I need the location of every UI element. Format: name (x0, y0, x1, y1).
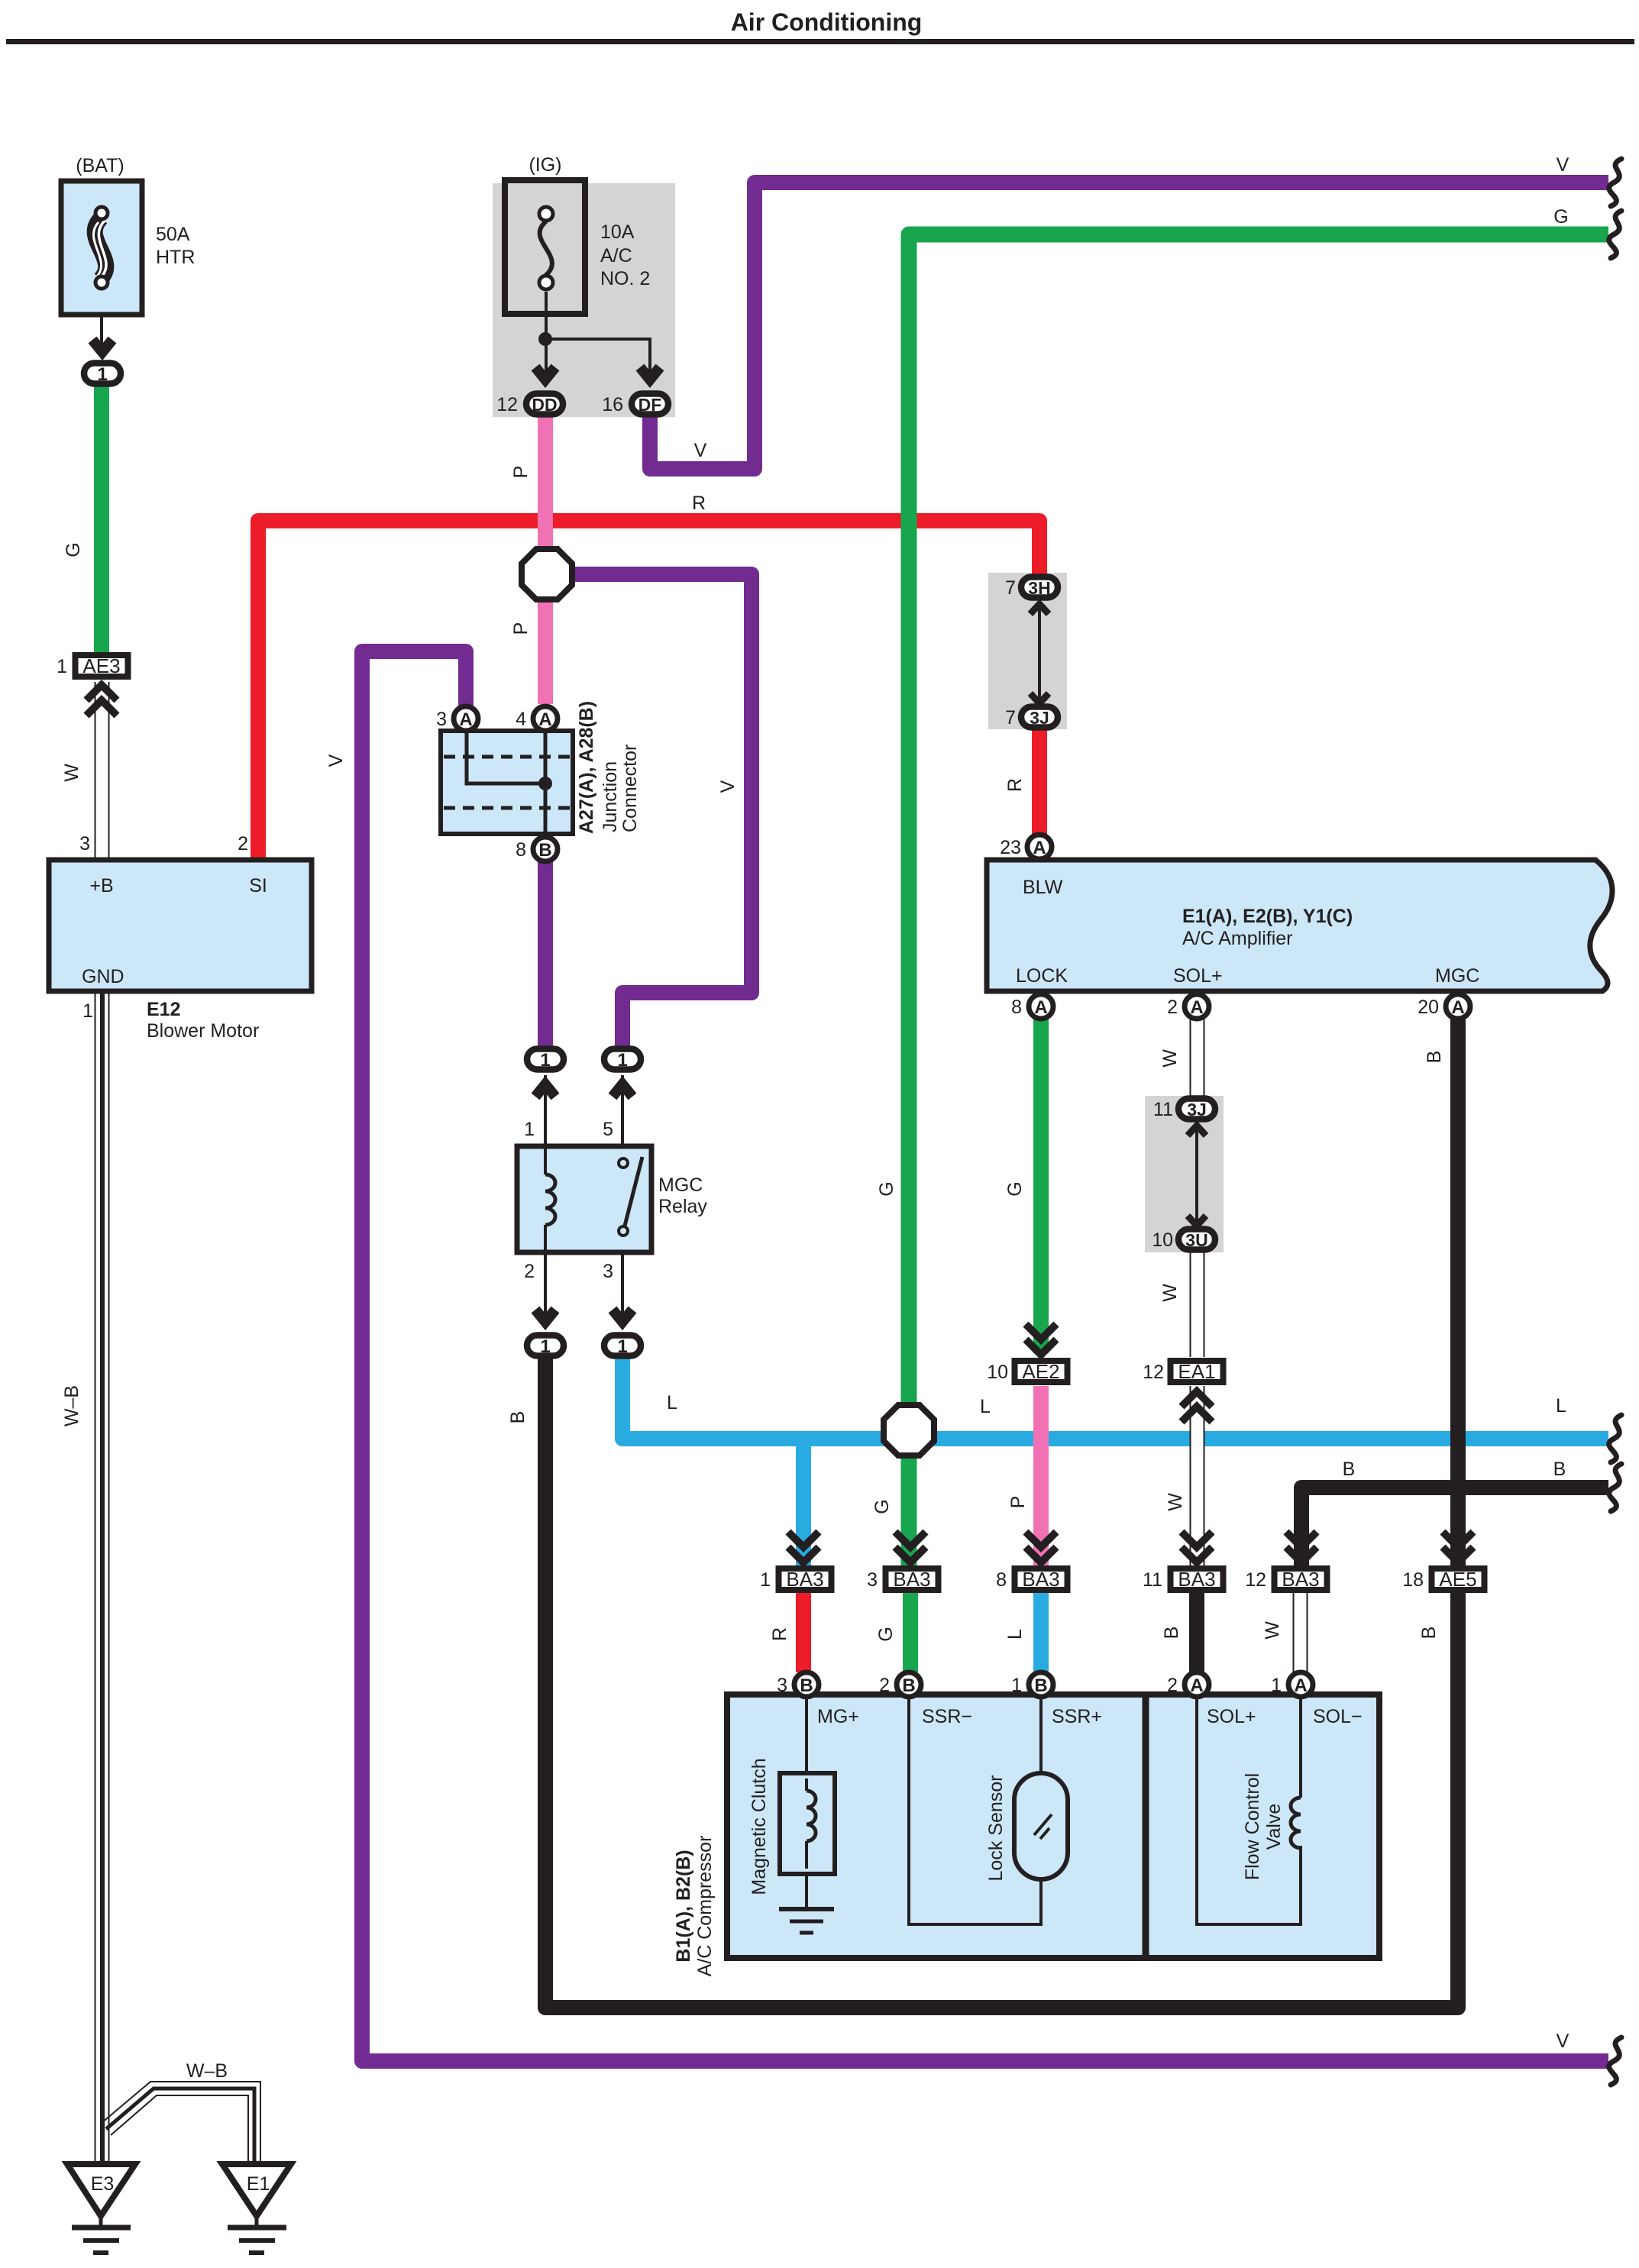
connector oval 1 (BAT fuse output) (84, 363, 121, 386)
relay oval 1 (pin5 top) (604, 1049, 641, 1071)
svg-text:A: A (1190, 997, 1203, 1018)
wire G green: BAT fuse oval to AE3 (94, 386, 109, 653)
shield connector 3 BA3 (886, 1568, 939, 1591)
svg-text:BLW: BLW (1023, 877, 1063, 898)
connector oval 7 3H (1021, 577, 1058, 599)
svg-text:1: 1 (97, 364, 107, 385)
svg-text:B: B (800, 1675, 813, 1696)
svg-text:P: P (1007, 1496, 1029, 1509)
double-ended arrow between 3J and 3U (1188, 1126, 1206, 1226)
shield connector 12 BA3 (1275, 1568, 1327, 1591)
svg-text:B: B (1343, 1459, 1356, 1480)
svg-text:BA3: BA3 (786, 1568, 823, 1591)
svg-text:E3: E3 (91, 2173, 115, 2195)
relay oval 1 (pin3 bottom) (604, 1336, 641, 1358)
svg-text:B: B (902, 1675, 915, 1696)
svg-text:23: 23 (1000, 837, 1021, 858)
shield connector 18 AE5 (1432, 1568, 1485, 1591)
arrow up into relay pin1 oval (535, 1084, 555, 1097)
svg-text:W: W (1165, 1493, 1186, 1511)
svg-text:11: 11 (1143, 1569, 1162, 1591)
connector oval 7 3J (1021, 707, 1058, 729)
svg-text:A27(A), A28(B): A27(A), A28(B) (576, 701, 597, 834)
svg-text:+B: +B (89, 875, 113, 897)
double-ended arrow between 3H and 3J (1030, 604, 1049, 703)
svg-text:2: 2 (1167, 997, 1178, 1018)
double arrow down into 1 BA3 (788, 1532, 819, 1562)
compressor circle 1 A (1288, 1672, 1313, 1697)
svg-text:A: A (459, 709, 472, 730)
E12 blower motor box (49, 860, 312, 991)
relay oval 1 (pin1 top) (527, 1049, 564, 1071)
double arrow down into 12 BA3 (1286, 1532, 1317, 1562)
wire R red: 3J to amplifier pin 23A (1032, 728, 1047, 836)
wire L lightblue: branch down to 1 BA3 (796, 1439, 811, 1567)
arrow into 12 DD (535, 367, 555, 380)
continuation curl G top (1609, 211, 1621, 258)
svg-text:1: 1 (524, 1119, 535, 1140)
svg-text:(IG): (IG) (529, 154, 561, 176)
connector oval 10 3U (1178, 1229, 1215, 1251)
svg-text:2: 2 (524, 1261, 535, 1282)
svg-text:3: 3 (436, 709, 447, 730)
wire V purple: DF jog up to right edge (650, 183, 1608, 469)
wire L lightblue: 8 BA3 to compressor 1B (1033, 1593, 1049, 1672)
svg-text:E12: E12 (147, 999, 180, 1020)
ground E1 (222, 2164, 291, 2253)
svg-text:V: V (717, 780, 739, 793)
A/C amplifier box E1(A) E2(B) Y1(C) (987, 860, 1612, 991)
wire L lightblue: relay pin3 to right edge (622, 1356, 1608, 1439)
wire G green: octagon to 3 BA3 (901, 1455, 917, 1567)
svg-text:P: P (510, 622, 532, 635)
svg-text:LOCK: LOCK (1016, 965, 1068, 987)
connector circle 23 A (amplifier BLW) (1027, 835, 1052, 859)
svg-text:P: P (510, 466, 532, 479)
svg-text:(BAT): (BAT) (76, 155, 124, 176)
svg-text:AE5: AE5 (1439, 1568, 1476, 1591)
3J/3U connector gray panel (1145, 1096, 1224, 1252)
connector circle A (junction pin 4) (533, 706, 558, 731)
double arrow up below AE3 (86, 685, 117, 716)
svg-text:A: A (1034, 997, 1047, 1018)
lock sensor (909, 1699, 1068, 1924)
svg-text:AE2: AE2 (1022, 1360, 1059, 1383)
svg-text:2: 2 (879, 1675, 890, 1696)
wire V purple: octagon to relay pin5 oval (571, 574, 752, 1046)
double arrow down into AE2 (1026, 1324, 1056, 1355)
compressor circle 2 B (897, 1672, 921, 1697)
svg-text:B: B (1034, 1675, 1047, 1696)
svg-text:3U: 3U (1185, 1230, 1207, 1250)
connector circle 8 A (amplifier LOCK) (1029, 994, 1053, 1019)
svg-text:B: B (507, 1411, 529, 1424)
svg-text:20: 20 (1418, 997, 1439, 1018)
svg-text:8: 8 (516, 839, 526, 861)
svg-text:B: B (1424, 1051, 1445, 1064)
svg-text:L: L (980, 1396, 991, 1417)
wire B black: 11 BA3 to compressor 2A (1189, 1593, 1204, 1672)
svg-text:1: 1 (1271, 1675, 1282, 1696)
connector circle 2 A (amplifier SOL+) (1185, 994, 1209, 1019)
flow control valve (1197, 1699, 1301, 1924)
svg-text:Flow Control: Flow Control (1242, 1773, 1263, 1880)
svg-text:W: W (61, 764, 82, 782)
thin leads: MGC relay pins (545, 1075, 622, 1329)
IG fuse box 10A A/C NO.2 (505, 180, 585, 314)
svg-text:G: G (876, 1181, 897, 1196)
svg-text:12: 12 (1245, 1569, 1266, 1591)
svg-text:W: W (1262, 1621, 1283, 1640)
svg-text:B: B (1553, 1459, 1566, 1480)
svg-text:3: 3 (777, 1675, 787, 1696)
svg-text:1: 1 (82, 1000, 93, 1022)
svg-text:A: A (1451, 997, 1464, 1018)
svg-text:Lock Sensor: Lock Sensor (985, 1775, 1007, 1882)
svg-text:W: W (1159, 1049, 1181, 1068)
shield connector 8 BA3 (1015, 1568, 1068, 1591)
svg-text:12: 12 (496, 394, 518, 415)
svg-text:A: A (1294, 1675, 1307, 1696)
svg-text:G: G (1004, 1181, 1026, 1196)
svg-text:3J: 3J (1030, 708, 1049, 728)
svg-text:G: G (871, 1499, 893, 1514)
magnetic clutch (779, 1699, 835, 1933)
wire G green: LOCK 8A to AE2 (1033, 1019, 1049, 1353)
svg-text:5: 5 (603, 1119, 613, 1140)
svg-text:2: 2 (1167, 1675, 1178, 1696)
svg-text:SSR−: SSR− (922, 1706, 972, 1727)
svg-text:Junction: Junction (600, 761, 621, 832)
svg-text:1: 1 (540, 1050, 550, 1071)
svg-text:18: 18 (1402, 1569, 1424, 1591)
svg-text:10: 10 (987, 1362, 1008, 1383)
svg-text:SOL+: SOL+ (1173, 965, 1223, 987)
svg-text:E1: E1 (247, 2173, 270, 2195)
relay oval 1 (pin2 bottom) (527, 1336, 564, 1358)
wire R red: SI to 3H (258, 521, 1039, 860)
IG fuse gray panel (493, 183, 675, 417)
junction dot in IG panel (538, 332, 552, 346)
double arrow down into 8 BA3 (1026, 1532, 1056, 1562)
svg-text:W–B: W–B (186, 2060, 228, 2082)
wire G green: main down from right edge (909, 234, 1608, 1406)
wire B black: MGC 20A to 18 AE5 (1450, 1019, 1466, 1567)
svg-text:W: W (1159, 1284, 1181, 1302)
BAT fuse box 50A HTR (61, 181, 142, 315)
svg-text:8: 8 (996, 1569, 1007, 1591)
svg-text:MGC: MGC (658, 1174, 703, 1196)
thin lead: BAT fuse to connector 1 (100, 315, 103, 353)
svg-text:L: L (1004, 1629, 1026, 1640)
svg-text:EA1: EA1 (1178, 1360, 1215, 1383)
svg-text:7: 7 (1005, 577, 1016, 599)
title rule (6, 39, 1634, 44)
svg-text:2: 2 (238, 833, 248, 855)
svg-text:G: G (63, 542, 84, 557)
svg-text:V: V (1557, 2031, 1569, 2052)
svg-text:MGC: MGC (1435, 965, 1479, 987)
wire R red: 1 BA3 to compressor 3B (796, 1593, 811, 1672)
svg-text:1: 1 (1011, 1675, 1022, 1696)
connector oval DD (526, 394, 563, 415)
connector circle B (junction pin 8) (533, 837, 558, 861)
svg-text:11: 11 (1153, 1099, 1173, 1120)
double arrow up below EA1 (1182, 1391, 1212, 1422)
wire W white: 10 3U to EA1 (1190, 1251, 1204, 1357)
shield connector 1 BA3 (779, 1568, 832, 1591)
svg-text:Air Conditioning: Air Conditioning (731, 8, 923, 36)
svg-text:NO. 2: NO. 2 (600, 268, 650, 289)
svg-text:A: A (538, 709, 551, 730)
wire B black: relay pin2 to AE5 via bottom (545, 1356, 1458, 2008)
svg-text:3: 3 (867, 1569, 878, 1591)
continuation curl V top (1609, 159, 1621, 206)
octagon junction on G/L wires (884, 1405, 934, 1455)
svg-text:HTR: HTR (156, 247, 195, 268)
svg-text:G: G (875, 1627, 897, 1641)
svg-text:MG+: MG+ (817, 1706, 859, 1727)
shield connector 11 BA3 (1171, 1568, 1224, 1591)
svg-text:8: 8 (1011, 997, 1022, 1018)
arrow into connector 1 (BAT) (92, 340, 112, 352)
svg-text:Connector: Connector (619, 745, 641, 832)
3H/3J connector gray panel (988, 573, 1067, 729)
svg-text:10: 10 (1152, 1229, 1173, 1251)
svg-text:A/C: A/C (600, 245, 632, 267)
wire W white: amplifier SOL+ 2A to 11 3J (1190, 1019, 1204, 1097)
svg-text:V: V (694, 440, 707, 461)
wire G green: 3 BA3 to compressor 2B (903, 1593, 918, 1672)
arrow into 16 DF (640, 367, 660, 380)
svg-text:Blower Motor: Blower Motor (147, 1020, 259, 1042)
connector circle 20 A (amplifier MGC) (1446, 994, 1470, 1019)
svg-text:A: A (1190, 1675, 1203, 1696)
double arrow down into 18 AE5 (1443, 1532, 1473, 1562)
svg-text:B: B (1418, 1627, 1440, 1640)
svg-text:BA3: BA3 (893, 1568, 930, 1591)
wire V purple: junction A3 up-left-down-right to edge (362, 651, 1608, 2061)
shield connector 10 AE2 (1015, 1360, 1068, 1383)
svg-text:W–B: W–B (61, 1385, 82, 1426)
svg-text:4: 4 (516, 709, 526, 730)
arrow up into relay pin5 oval (613, 1084, 632, 1097)
thin leads inside IG panel: fuse to 12DD and 16DF (545, 292, 650, 382)
shield connector 1 AE3 (76, 654, 128, 677)
svg-text:DD: DD (532, 395, 557, 415)
svg-text:BA3: BA3 (1022, 1568, 1059, 1591)
compressor circle 1 B (1029, 1672, 1053, 1697)
svg-text:3H: 3H (1028, 578, 1050, 598)
svg-text:10A: 10A (600, 221, 635, 243)
connector oval 11 3J (1178, 1099, 1215, 1120)
svg-text:A/C Compressor: A/C Compressor (694, 1836, 716, 1977)
svg-text:A/C Amplifier: A/C Amplifier (1182, 928, 1292, 949)
svg-text:1: 1 (617, 1336, 627, 1357)
svg-text:E1(A), E2(B), Y1(C): E1(A), E2(B), Y1(C) (1182, 906, 1353, 927)
svg-text:B: B (538, 840, 551, 861)
continuation curl V bottom (1609, 2037, 1621, 2085)
svg-text:L: L (667, 1392, 677, 1413)
svg-text:Magnetic Clutch: Magnetic Clutch (748, 1758, 770, 1895)
svg-text:V: V (1557, 154, 1569, 176)
compressor circle 2 A (1185, 1672, 1209, 1697)
svg-text:SOL−: SOL− (1313, 1706, 1363, 1727)
svg-text:50A: 50A (156, 224, 190, 245)
svg-text:SI: SI (249, 875, 267, 897)
svg-text:7: 7 (1005, 707, 1016, 729)
svg-text:L: L (1556, 1395, 1566, 1417)
compressor circle 3 B (794, 1672, 819, 1697)
svg-text:3: 3 (603, 1261, 613, 1282)
wire V purple: junction B8 to relay pin1 oval (538, 836, 553, 1046)
shield connector 12 EA1 (1171, 1360, 1224, 1383)
arrow down from relay pin2 (535, 1310, 555, 1322)
continuation curl L (1609, 1415, 1621, 1462)
svg-text:SOL+: SOL+ (1207, 1706, 1256, 1727)
A/C compressor box B1(A) B2(B) (727, 1695, 1379, 1958)
svg-text:R: R (692, 493, 706, 514)
MGC relay box (517, 1146, 651, 1252)
svg-text:R: R (1004, 778, 1026, 792)
svg-text:R: R (769, 1627, 790, 1641)
arrow down from relay pin3 (613, 1310, 632, 1322)
wire W white: EA1 to 11 BA3 (1190, 1386, 1204, 1567)
double arrow down into 3 BA3 (895, 1532, 926, 1562)
svg-text:1: 1 (617, 1050, 627, 1071)
wire P pink: AE2 to 8 BA3 (1033, 1386, 1049, 1567)
svg-text:3: 3 (79, 833, 90, 855)
wire W white: AE3 to blower +B (95, 682, 109, 860)
svg-text:B1(A), B2(B): B1(A), B2(B) (673, 1850, 694, 1962)
ground E3 (67, 2164, 135, 2253)
svg-text:DF: DF (638, 395, 662, 415)
svg-text:1: 1 (57, 656, 67, 677)
svg-text:16: 16 (602, 394, 623, 415)
svg-text:BA3: BA3 (1178, 1568, 1215, 1591)
connector oval DF (632, 394, 668, 415)
connector circle A (junction pin 3) (454, 706, 478, 731)
wire B black: right edge to 12 BA3 (1301, 1488, 1608, 1567)
svg-text:1: 1 (760, 1569, 771, 1591)
svg-text:SSR+: SSR+ (1052, 1706, 1102, 1727)
svg-text:A: A (1033, 838, 1046, 858)
svg-text:GND: GND (82, 966, 124, 987)
wire P pink: DD through octagon to junction A4 (538, 412, 553, 704)
svg-text:Relay: Relay (658, 1196, 707, 1217)
svg-text:G: G (1553, 206, 1568, 228)
svg-text:Valve: Valve (1263, 1804, 1285, 1850)
svg-text:12: 12 (1143, 1362, 1164, 1383)
svg-text:BA3: BA3 (1282, 1568, 1319, 1591)
svg-text:1: 1 (540, 1336, 550, 1357)
wire W white: 12 BA3 to compressor 1A (1293, 1593, 1308, 1672)
wire W-B branch: to ground E1 (102, 2082, 260, 2164)
wire W-B: blower GND to ground E3 (95, 991, 109, 2164)
svg-text:3J: 3J (1187, 1100, 1207, 1119)
double arrow down into 11 BA3 (1182, 1532, 1212, 1562)
octagon junction on P wire (522, 549, 572, 599)
continuation curl B (1609, 1464, 1621, 1511)
A27/A28 junction connector box (441, 731, 573, 834)
svg-text:V: V (325, 754, 347, 767)
svg-text:B: B (1161, 1627, 1182, 1640)
svg-text:AE3: AE3 (82, 654, 120, 677)
